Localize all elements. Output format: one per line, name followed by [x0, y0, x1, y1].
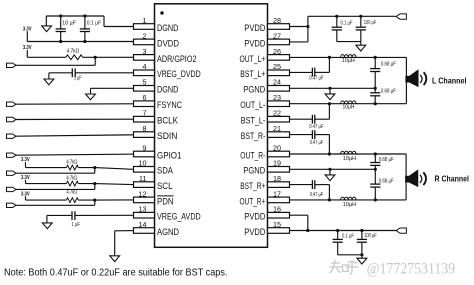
pin 25 BST_L+	[268, 70, 290, 76]
inductor 10uH (OUT_L+)	[341, 55, 356, 58]
svg-text:21: 21	[273, 124, 281, 133]
capacitor 10uF	[60, 16, 62, 29]
connector PVDD (bottom right)	[396, 228, 406, 233]
pin 27 PVDD	[268, 39, 290, 45]
junction dots 10uF	[59, 14, 62, 17]
capacitor 1uF (VREG_DVDD)	[49, 72, 72, 74]
pin 20 OUT_R-	[268, 151, 290, 157]
svg-text:18: 18	[273, 174, 281, 183]
node PVDD junction top	[306, 25, 309, 28]
svg-text:VREG_AVDD: VREG_AVDD	[157, 212, 201, 222]
capacitor 0.47uF (BST_R+)	[290, 184, 313, 186]
wire PGND (L)	[290, 87, 376, 89]
connector ADR/GPIO2 input	[7, 63, 16, 67]
connector FSYNC	[7, 102, 16, 106]
svg-text:3: 3	[143, 47, 147, 56]
svg-text:PDN: PDN	[157, 196, 174, 206]
svg-text:DVDD: DVDD	[157, 38, 179, 48]
svg-text:17: 17	[273, 189, 281, 198]
svg-text:BST_L+: BST_L+	[240, 69, 265, 79]
svg-text:OUT_L-: OUT_L-	[240, 100, 265, 110]
svg-text:OUT_R-: OUT_R-	[240, 150, 265, 160]
svg-text:0.47 µF: 0.47 µF	[310, 140, 324, 146]
wire SDIN	[16, 135, 134, 136]
pin 14 AGND	[134, 228, 155, 234]
svg-text:0.68 µF: 0.68 µF	[381, 89, 397, 95]
inductor 10uH (OUT_R+)	[341, 197, 356, 200]
capacitor 1uF (VREG_AVDD)	[47, 214, 72, 216]
capacitor 0.1uF (left)	[84, 16, 86, 29]
svg-text:BCLK: BCLK	[157, 116, 179, 126]
svg-text:FSYNC: FSYNC	[157, 100, 182, 110]
svg-text:SCL: SCL	[157, 181, 173, 191]
svg-text:19: 19	[273, 159, 281, 168]
pin 10 SDA	[134, 167, 155, 173]
pin 2 DVDD	[134, 39, 155, 45]
svg-text:L Channel: L Channel	[432, 76, 467, 85]
pin 18 BST_R+	[268, 182, 290, 188]
svg-text:Note: Both 0.47uF or 0.22uF ar: Note: Both 0.47uF or 0.22uF are suitable…	[4, 268, 228, 279]
svg-text:2: 2	[143, 31, 147, 40]
junction dots 0.1uF	[83, 14, 86, 17]
svg-text:GPIO1: GPIO1	[157, 150, 182, 160]
capacitor 0.47uF (BST_L+)	[290, 71, 313, 73]
watermark zhihu logo	[330, 260, 359, 274]
wire: top ground rail to pin 1	[46, 15, 104, 17]
wire: DVDD net to pin 2	[27, 41, 133, 43]
svg-text:SDIN: SDIN	[157, 131, 178, 141]
pin 12 PDN	[134, 197, 155, 203]
capacitor 0.47uF (BST_L-)	[290, 118, 313, 120]
pin 24 PGND	[268, 86, 290, 92]
svg-text:100 µF: 100 µF	[364, 20, 377, 26]
svg-text:4.7kΩ: 4.7kΩ	[66, 190, 77, 196]
svg-text:27: 27	[273, 31, 281, 40]
inductor 10uH (OUT_L-)	[341, 101, 356, 104]
capacitor 100uF (bottom PVDD)	[361, 231, 363, 240]
svg-text:PGND: PGND	[243, 166, 265, 176]
wire PVDD top rail	[308, 15, 396, 17]
capacitor 0.68uF (R lower)	[374, 169, 376, 184]
capacitor 0.1uF (top PVDD)	[336, 16, 338, 27]
svg-text:28: 28	[273, 16, 281, 25]
node PVDD junction bottom	[306, 229, 309, 232]
ground (VREG_DVDD)	[48, 73, 50, 79]
svg-text:0.47 µF: 0.47 µF	[310, 192, 324, 198]
svg-text:16: 16	[273, 205, 281, 214]
svg-text:PGND: PGND	[243, 85, 265, 95]
pin 17 OUT_R+	[268, 197, 290, 203]
svg-text:4.7kΩ: 4.7kΩ	[66, 159, 77, 165]
svg-text:25: 25	[273, 62, 281, 71]
svg-text:4: 4	[143, 62, 147, 71]
wire OUT_R- net	[290, 153, 407, 155]
ground (pin 5 DGND)	[90, 88, 92, 94]
svg-text:BST_R+: BST_R+	[240, 181, 265, 191]
svg-text:100 µF: 100 µF	[364, 233, 377, 239]
svg-text:0.68 µF: 0.68 µF	[379, 179, 395, 185]
svg-text:4.7kΩ: 4.7kΩ	[67, 49, 80, 55]
svg-text:OUT_L+: OUT_L+	[240, 54, 266, 64]
svg-text:26: 26	[273, 47, 281, 56]
svg-text:13: 13	[139, 205, 147, 214]
wire PGND (R)	[290, 168, 376, 170]
wire OUT_L- net	[290, 103, 407, 105]
wire AGND	[115, 230, 134, 232]
svg-text:0.1 µF: 0.1 µF	[342, 234, 354, 240]
pin 21 BST_R-	[268, 132, 290, 138]
speaker L	[405, 57, 407, 103]
svg-text:OUT_R+: OUT_R+	[240, 196, 266, 206]
svg-text:8: 8	[143, 124, 147, 133]
capacitor 0.47uF (BST_R-)	[290, 134, 313, 136]
svg-text:0.68 µF: 0.68 µF	[381, 61, 397, 67]
svg-text:AGND: AGND	[157, 227, 179, 237]
svg-text:DGND: DGND	[157, 85, 179, 95]
svg-text:10µH: 10µH	[343, 104, 355, 110]
IC U1 body	[155, 4, 268, 248]
svg-text:1: 1	[143, 16, 147, 25]
pin 15 PVDD	[268, 228, 290, 234]
ground (VREG_AVDD)	[46, 215, 48, 223]
svg-text:9: 9	[143, 143, 147, 152]
inductor 10uH (OUT_R-)	[341, 151, 356, 154]
capacitor 0.68uF (L lower)	[374, 88, 376, 93]
ground (AGND)	[110, 256, 120, 262]
svg-text:0.68 µF: 0.68 µF	[379, 157, 395, 163]
wire / ground (top PVDD caps)	[337, 41, 361, 43]
svg-text:PVDD: PVDD	[244, 227, 265, 237]
pin 5 DGND	[134, 86, 155, 92]
svg-text:14: 14	[139, 220, 147, 229]
pin 26 OUT_L+	[268, 55, 290, 61]
ground (PGND L)	[329, 88, 331, 94]
svg-text:20: 20	[273, 143, 281, 152]
wire pin 15 PVDD net	[290, 230, 397, 232]
pin 16 PVDD	[268, 212, 290, 218]
pin 22 BST_L-	[268, 116, 290, 122]
pin 13 VREG_AVDD	[134, 212, 155, 218]
connector GPIO1	[7, 153, 16, 157]
svg-text:10 µF: 10 µF	[62, 20, 76, 26]
wire OUT_R+ net	[290, 199, 407, 201]
svg-text:6: 6	[143, 93, 147, 102]
svg-text:R Channel: R Channel	[435, 175, 470, 184]
svg-text:BST_L-: BST_L-	[241, 116, 266, 126]
pin 23 OUT_L-	[268, 101, 290, 107]
wire: pin 5 DGND	[91, 87, 134, 89]
connector SDIN	[7, 134, 16, 138]
svg-text:22: 22	[273, 109, 281, 118]
speaker R	[405, 154, 407, 200]
svg-text:VREG_DVDD: VREG_DVDD	[157, 69, 201, 79]
svg-text:PVDD: PVDD	[244, 23, 265, 33]
pin 1 DGND	[134, 24, 155, 30]
svg-text:10µH: 10µH	[343, 156, 356, 162]
svg-text:0.47 µF: 0.47 µF	[309, 124, 324, 130]
capacitor 0.68uF (L upper)	[374, 57, 376, 68]
capacitor 0.1uF (bottom PVDD)	[337, 231, 339, 240]
pin 4 VREG_DVDD	[134, 70, 155, 76]
svg-text:5: 5	[143, 78, 147, 87]
capacitor 100uF (top PVDD)	[360, 16, 362, 27]
pin 11 SCL	[134, 182, 155, 188]
capacitor 0.68uF (R upper)	[374, 154, 376, 163]
pin 9 GPIO1	[134, 151, 155, 157]
svg-text:1 µF: 1 µF	[74, 76, 82, 82]
svg-text:PVDD: PVDD	[244, 212, 265, 222]
pin 7 BCLK	[134, 116, 155, 122]
ground (PGND R)	[329, 169, 331, 175]
pin 1 marker dot	[160, 11, 163, 14]
pin 8 SDIN	[134, 132, 155, 138]
svg-text:SDA: SDA	[157, 166, 174, 176]
ground (top-left rail)	[45, 16, 47, 26]
pin 3 ADR/GPIO2	[134, 55, 155, 61]
wire FSYNC	[16, 103, 134, 105]
node ADR junction	[94, 56, 97, 59]
svg-text:15: 15	[273, 220, 281, 229]
svg-text:7: 7	[143, 109, 147, 118]
connector BCLK	[7, 117, 16, 121]
pin 19 PGND	[268, 167, 290, 173]
svg-text:10µH: 10µH	[343, 202, 356, 208]
svg-text:DGND: DGND	[157, 23, 179, 33]
wire BCLK	[16, 118, 134, 120]
node dots OUT_L+	[328, 56, 331, 59]
svg-text:4.7kΩ: 4.7kΩ	[66, 176, 77, 182]
svg-text:1 µF: 1 µF	[72, 222, 81, 228]
svg-text:BST_R-: BST_R-	[241, 131, 266, 141]
wire OUT_L+ net	[290, 56, 407, 58]
connector PVDD (top right)	[396, 14, 406, 19]
wire / ground (bottom PVDD caps)	[338, 254, 362, 256]
svg-text:0.47 µF: 0.47 µF	[309, 75, 324, 81]
pin 28 PVDD	[268, 24, 290, 30]
svg-text:@17727531139: @17727531139	[367, 260, 456, 277]
svg-text:24: 24	[273, 78, 281, 87]
wire pin 16 PVDD	[290, 214, 308, 216]
wire GPIO1	[16, 154, 134, 155]
pin 6 FSYNC	[134, 101, 155, 107]
svg-text:0.1 µF: 0.1 µF	[341, 20, 353, 26]
svg-text:0.1 µF: 0.1 µF	[87, 20, 102, 26]
svg-text:12: 12	[139, 189, 147, 198]
wire: ADR to connector	[94, 57, 96, 65]
wire pin 28 PVDD	[290, 26, 308, 28]
svg-text:10: 10	[139, 159, 147, 168]
svg-text:11: 11	[139, 174, 146, 183]
svg-text:10µH: 10µH	[342, 58, 355, 64]
wire pin 27 PVDD	[290, 41, 308, 43]
resistor 4.7k (ADR/GPIO2)	[27, 56, 66, 58]
svg-text:PVDD: PVDD	[244, 38, 265, 48]
svg-text:23: 23	[273, 93, 281, 102]
svg-text:ADR/GPIO2: ADR/GPIO2	[157, 54, 197, 64]
